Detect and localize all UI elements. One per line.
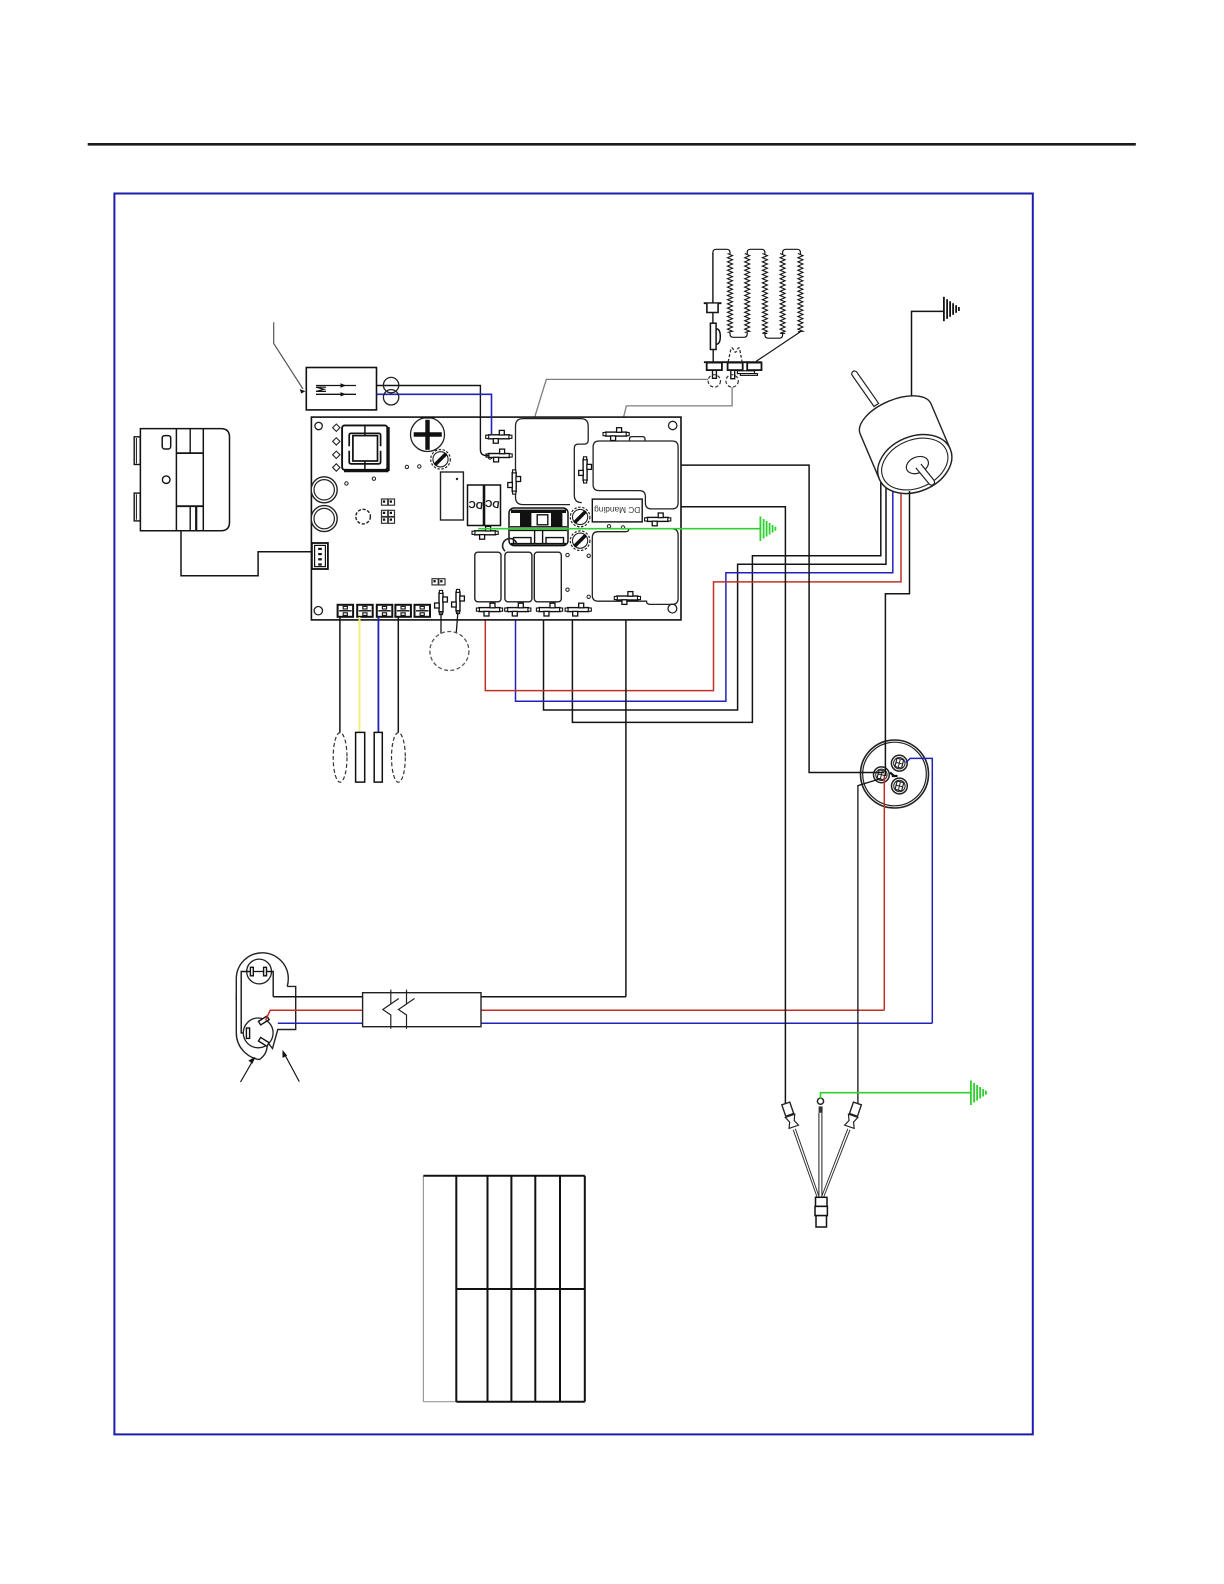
legend table [422, 1176, 424, 1402]
wire filter blue [377, 394, 492, 434]
capacitor terminal FAN [892, 778, 908, 794]
wire filter black [377, 386, 490, 456]
pcb terminal block 3 [377, 605, 393, 617]
buzzer [440, 612, 442, 643]
plug pin right [264, 967, 267, 976]
relay box tab upper [134, 437, 140, 465]
wire relay box to pcb [181, 531, 311, 576]
pcb edge connector [312, 543, 328, 569]
line filter FL1 [306, 368, 376, 410]
wire faston yellow [359, 617, 361, 732]
diagram border frame [114, 194, 1032, 1435]
relay box contact column [175, 429, 177, 531]
electrolytic capacitor C2 [411, 418, 445, 452]
relay K1 socket [342, 425, 387, 469]
buzzer key connectors [439, 593, 443, 612]
screw pad 1 [431, 450, 451, 470]
solder hook [503, 539, 517, 551]
plug slot neutral [246, 1028, 249, 1038]
pcb terminal block 5 [415, 605, 431, 617]
plug leader arrow right [286, 1056, 300, 1082]
plug face large [243, 1018, 273, 1048]
plug pin left [250, 967, 253, 976]
capacitor terminal HERM [891, 755, 907, 771]
wire cord blue [278, 1022, 933, 1024]
header rule [88, 143, 1136, 146]
DC standby label [592, 499, 642, 522]
power plug body [236, 953, 288, 1005]
wire motor red [485, 476, 901, 691]
wire motor blue [516, 472, 893, 701]
wire faston black 1 [339, 617, 341, 733]
connector CN9 [507, 608, 528, 612]
leader line to filter [274, 322, 303, 389]
wire faston blue [377, 617, 379, 732]
plug face small [247, 959, 272, 984]
connector CN6 key [512, 473, 516, 492]
rectifier DC module [468, 485, 501, 526]
plug leader arrow left [241, 1063, 252, 1082]
faston terminal 4 [392, 733, 406, 783]
overload right crimp [845, 1102, 862, 1129]
wire faston black 2 [397, 617, 399, 733]
relay K6 box [505, 552, 532, 602]
pcb vias [405, 465, 408, 468]
thermal cutout TCO [704, 302, 722, 304]
connector CN11 [568, 608, 589, 612]
heater element R3 coil [780, 254, 785, 334]
pcb pad circle [356, 509, 371, 524]
wire heater supply vertical [712, 253, 714, 303]
wire sensor ground green [821, 1093, 971, 1099]
svg-text:DC Manding: DC Manding [594, 505, 641, 515]
screw pad 2 [570, 507, 590, 527]
wire heater terminal B to relay connector [617, 387, 732, 444]
jumper J3 [432, 579, 438, 585]
wire motor ground lead [912, 311, 944, 396]
compressor relay box [140, 429, 229, 531]
wire capacitor blue [906, 758, 933, 1023]
overload left crimp [781, 1102, 798, 1129]
jumper J2 [382, 510, 388, 516]
svg-text:DC: DC [485, 497, 501, 510]
wire relay loop top [606, 436, 679, 506]
heater element R2 coil [745, 254, 750, 333]
overload right lead [822, 1129, 850, 1197]
thermal fuse F1 [710, 323, 716, 349]
connector CN1 [488, 435, 509, 439]
wire cord red [266, 1010, 885, 1020]
connector CN4 [647, 517, 668, 521]
screw pad 3 [570, 531, 590, 551]
cord sheath break [363, 993, 481, 1027]
jumper J1 [382, 499, 388, 505]
transformer T1 [509, 508, 568, 546]
connector CN10 [539, 608, 560, 612]
fan motor M1 [836, 348, 961, 505]
svg-text:DC: DC [468, 498, 484, 511]
relay K2 outline [516, 419, 589, 505]
overload protector body [816, 1197, 828, 1206]
connector CN2 [489, 454, 510, 458]
ground symbol sensor [970, 1081, 972, 1106]
relay box slot [162, 436, 171, 449]
capacitor pointer mark [890, 773, 898, 777]
heater terminal stems [713, 370, 717, 378]
wire pcb green ground [478, 528, 760, 530]
faston terminal 2 [356, 732, 365, 782]
sensor lead [819, 1113, 822, 1197]
cord grommet rings [383, 377, 398, 392]
capacitor terminal C [874, 767, 890, 783]
wire cord black [273, 996, 626, 998]
relay K3 outline [593, 437, 678, 509]
overload left lead [793, 1129, 819, 1197]
wire capacitor to sensor [858, 779, 881, 1104]
connector CN12 [617, 596, 638, 600]
pcb mounting holes [315, 422, 322, 429]
heater ring terminal A [708, 375, 720, 387]
connector CN5 vertical [583, 459, 587, 480]
wire motor black 1 [572, 466, 880, 722]
faston terminal 3 [374, 732, 382, 782]
faston terminal 1 [333, 733, 347, 783]
pcb terminal block 1 [338, 605, 354, 617]
pcb diamond pads [333, 424, 340, 431]
heater element coil loops [713, 249, 730, 254]
connector CN7 green [475, 531, 496, 535]
relay K5 box [475, 552, 501, 602]
pcb ring pads [311, 477, 337, 503]
plug internal wires [253, 971, 263, 973]
relay box pilot hole [162, 476, 170, 484]
heater terminal strip [704, 361, 762, 363]
relay K4 outline [592, 529, 678, 605]
relay K7 box [534, 552, 561, 602]
wire heater terminal A to relay connector [514, 379, 708, 484]
wire capacitor red down [883, 777, 885, 1011]
pcb terminal block 4 [395, 605, 411, 617]
ground symbol motor [943, 297, 945, 321]
connector CN8 [479, 608, 500, 612]
plug slot ground [258, 1037, 269, 1046]
plug slot line [258, 1016, 269, 1025]
connector CN3 [606, 432, 627, 436]
run capacitor C1 [861, 740, 929, 808]
capacitor C3 [441, 472, 464, 520]
heater element R1 coil [728, 254, 733, 333]
heater ring terminal B [726, 375, 738, 387]
wire motor black 2 [544, 469, 887, 710]
relay box tab lower [134, 493, 140, 521]
heater terminal crimp flag [728, 348, 742, 362]
wire heater coil to terminal diagonal [756, 332, 800, 362]
ground symbol pcb [759, 517, 761, 542]
sensor ring terminal [817, 1098, 823, 1104]
wire pcb to cord junction [625, 600, 627, 997]
wire pcb to capacitor [586, 465, 884, 772]
pcb terminal block 2 [357, 605, 373, 617]
wire motor to capacitor [885, 491, 909, 776]
control board PCB [311, 417, 681, 620]
wire pcb to overload [654, 507, 786, 1104]
